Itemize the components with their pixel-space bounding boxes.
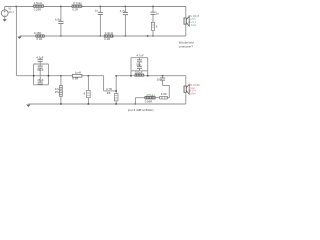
svg-text:0.2R: 0.2R — [104, 37, 110, 41]
svg-text:0.28R: 0.28R — [34, 7, 41, 11]
svg-text:0.7mH: 0.7mH — [73, 1, 81, 5]
capacitor C3 shunt branch — [120, 7, 128, 37]
speaker S2 — [184, 84, 189, 94]
wire speaker S2 bottom lead — [185, 93, 187, 104]
svg-text:8: 8 — [156, 25, 158, 29]
node C3 top junction — [125, 6, 127, 8]
wire feed horizontal — [16, 75, 33, 77]
svg-text:0.4mH: 0.4mH — [188, 23, 196, 27]
ground under V1 — [3, 19, 7, 21]
speaker S1 — [184, 16, 189, 26]
svg-text:470uH: 470uH — [146, 93, 154, 97]
svg-text:0.3mH: 0.3mH — [105, 31, 113, 35]
wire zobel2 row — [135, 97, 169, 99]
svg-text:0.1R: 0.1R — [36, 37, 42, 41]
svg-text:1mH: 1mH — [75, 71, 81, 75]
ground bottom rail — [26, 105, 30, 107]
resistor R4 zobel — [151, 22, 158, 36]
wire zobel2 jog — [163, 86, 170, 98]
svg-text:0.3R: 0.3R — [72, 77, 78, 81]
wire speaker S1 bottom lead — [185, 25, 187, 36]
svg-text:3.3R: 3.3R — [161, 92, 167, 96]
node zobel2 junction — [162, 75, 164, 77]
svg-text:(cut 3.4dB at 80Hz): (cut 3.4dB at 80Hz) — [128, 108, 154, 112]
node C1 bottom junction — [60, 35, 62, 37]
svg-text:6.8u: 6.8u — [55, 18, 61, 22]
node zobel bottom junction — [152, 35, 154, 37]
capacitor bank C7 parallel box — [131, 53, 148, 76]
resistor R8 row — [160, 92, 168, 99]
node R5 branch junction — [88, 75, 90, 77]
svg-text:V1: V1 — [8, 8, 12, 11]
capacitor C6 vertical branch — [55, 76, 63, 104]
inductor L4 mid rail — [104, 31, 113, 41]
capacitor C1 shunt branch — [55, 7, 64, 37]
inductor L6 row — [145, 96, 155, 103]
wire bottom rail — [34, 75, 104, 77]
node C2 bottom junction — [100, 35, 102, 37]
wire speaker S2 top lead — [185, 76, 187, 86]
svg-text:AC 1: AC 1 — [8, 11, 14, 14]
wire bottom rail right — [116, 75, 186, 77]
svg-text:2u: 2u — [156, 12, 160, 16]
ground mid rail — [17, 37, 21, 39]
label Woofer/mid note — [179, 41, 194, 49]
capacitor bank C5 stack — [34, 55, 49, 85]
label speaker S2 text — [188, 83, 201, 95]
svg-text:4.7uF: 4.7uF — [137, 53, 144, 57]
capacitor C2 shunt branch — [95, 7, 103, 37]
node woofer branch junction — [60, 75, 62, 77]
wire speaker S1 top lead — [185, 7, 187, 18]
svg-text:0.2R: 0.2R — [72, 7, 78, 11]
label speaker S1 text — [188, 14, 202, 27]
resistor R6 jog — [104, 87, 117, 95]
capacitor C4 zobel — [150, 7, 159, 23]
inductor L2 — [72, 1, 82, 11]
inductor L1 — [34, 1, 44, 11]
wire row left drop — [134, 98, 136, 104]
voltage source V1 — [1, 7, 14, 20]
svg-text:20u: 20u — [157, 77, 162, 81]
svg-text:35v: 35v — [55, 90, 60, 94]
wire jog up — [115, 76, 117, 94]
svg-text:0.56R: 0.56R — [145, 99, 152, 103]
svg-text:4 ohm: 4 ohm — [188, 92, 195, 96]
resistor R3 mid rail — [34, 31, 44, 41]
svg-text:47u: 47u — [55, 87, 60, 91]
capacitor C8 zobel2 — [157, 76, 165, 86]
wire feed vertical to low-pass — [15, 7, 17, 76]
svg-text:1.5mH: 1.5mH — [34, 1, 42, 5]
svg-text:crossover?: crossover? — [179, 44, 194, 48]
node C3 bottom junction — [125, 35, 127, 37]
svg-text:R6: R6 — [107, 91, 111, 95]
node feed junction — [16, 6, 18, 8]
svg-text:1u: 1u — [95, 9, 99, 13]
svg-text:0.15R: 0.15R — [34, 31, 41, 35]
svg-text:8: 8 — [84, 92, 86, 96]
node zobel top junction — [152, 6, 154, 8]
inductor L5 bottom rail — [72, 71, 82, 81]
wire top rail — [5, 6, 186, 8]
wire mid rail — [20, 35, 186, 37]
svg-text:4.7u: 4.7u — [120, 9, 126, 13]
resistor R5 vertical branch — [84, 76, 91, 104]
node C1 top junction — [60, 6, 62, 8]
wire ground rail — [28, 103, 186, 105]
wire jog down — [103, 76, 105, 91]
node C2 top junction — [100, 6, 102, 8]
resistor R7 vertical — [114, 94, 118, 104]
